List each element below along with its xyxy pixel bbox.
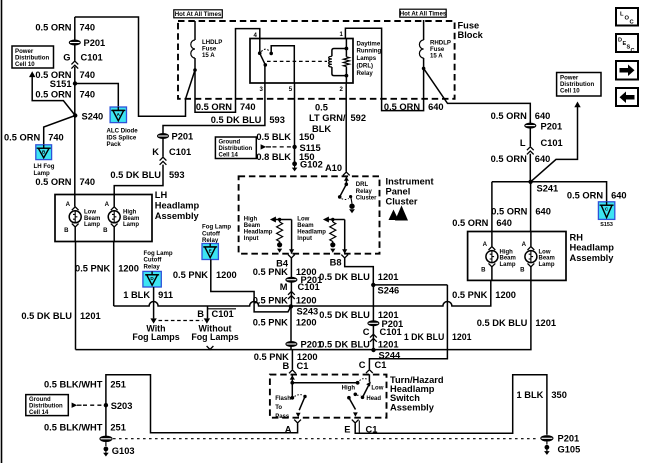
ground G105	[546, 441, 548, 444]
svg-text:Low: Low	[539, 249, 551, 255]
svg-text:C1: C1	[375, 360, 387, 370]
svg-text:Input: Input	[244, 236, 259, 242]
svg-text:0.5 DK BLU: 0.5 DK BLU	[21, 311, 72, 321]
flash-to-pass switch arm	[299, 397, 305, 411]
pin B8 chevron	[341, 255, 348, 258]
svg-text:15 A: 15 A	[430, 53, 443, 60]
connector G C101 inline chevrons	[71, 61, 78, 64]
connector P201 grommet (below S243)	[285, 341, 297, 347]
svg-text:L: L	[620, 12, 624, 18]
svg-text:0.5 ORN: 0.5 ORN	[196, 102, 232, 112]
connector B C101 tap (without fog lamps)	[207, 306, 209, 318]
svg-text:0.5 ORN: 0.5 ORN	[4, 133, 40, 143]
splice node S246	[371, 283, 375, 287]
svg-text:0.5 ORN: 0.5 ORN	[491, 111, 527, 121]
svg-text:640: 640	[611, 190, 627, 200]
wire 0.5 DK BLU 593 from DRL relay pin 3	[114, 65, 265, 207]
splice LH Fog Lamp (B)	[36, 145, 52, 160]
svg-text:Headlamp: Headlamp	[155, 201, 200, 211]
svg-text:1200: 1200	[216, 270, 237, 280]
fuse RHDLP 15A	[423, 20, 425, 40]
svg-text:1 BLK: 1 BLK	[123, 290, 150, 300]
svg-text:Instrument: Instrument	[386, 176, 434, 186]
svg-text:G103: G103	[112, 446, 135, 456]
svg-text:Lamp: Lamp	[123, 222, 139, 228]
wire S240 to LH fog lamp splice	[44, 116, 75, 149]
pin C wire into switch	[368, 374, 370, 382]
header box Hot At All Times (left)	[174, 10, 223, 18]
connector pin E chevron	[352, 420, 359, 423]
svg-text:C: C	[631, 48, 635, 54]
LH low beam B wire inside box	[74, 227, 76, 242]
svg-text:0.5 ORN: 0.5 ORN	[567, 190, 603, 200]
svg-text:B: B	[197, 309, 204, 319]
svg-text:Assembly: Assembly	[155, 211, 200, 221]
svg-text:350: 350	[551, 390, 567, 400]
splice node S203	[104, 403, 108, 407]
svg-text:Block: Block	[458, 30, 484, 40]
svg-text:G102: G102	[300, 160, 323, 170]
fuse block dashed outline	[178, 21, 455, 99]
LH low beam lamp pin B	[72, 224, 79, 227]
svg-text:L: L	[520, 138, 526, 148]
svg-text:5: 5	[289, 86, 293, 93]
wire S241 left branch to RH high beam	[492, 182, 531, 232]
connector P201 grommet right	[524, 123, 536, 129]
svg-text:0.5 ORN: 0.5 ORN	[491, 207, 527, 217]
svg-text:Pass: Pass	[275, 414, 290, 420]
svg-text:0.5 PNK: 0.5 PNK	[75, 263, 110, 273]
turn/hazard headlamp switch dashed box	[270, 375, 387, 418]
svg-text:0.5 PNK: 0.5 PNK	[173, 270, 208, 280]
svg-text:1200: 1200	[296, 295, 317, 305]
svg-text:High: High	[123, 210, 137, 216]
svg-text:0.5 ORN: 0.5 ORN	[35, 22, 71, 32]
svg-text:1201: 1201	[452, 332, 472, 342]
arrow from ground distribution to S203	[72, 403, 78, 408]
svg-text:M: M	[280, 282, 288, 292]
high/low/head switch contacts	[356, 381, 360, 385]
svg-text:S244: S244	[379, 350, 402, 360]
svg-text:S246: S246	[378, 285, 400, 295]
wire S246 right to headlamp switch feed	[373, 284, 447, 286]
svg-text:Head: Head	[366, 396, 381, 402]
LH low beam lamp	[69, 211, 81, 223]
wire RHDLP fuse to DRL relay pin 1 (0.5 ORN 640)	[345, 28, 423, 110]
svg-text:C101: C101	[541, 138, 563, 148]
svg-text:1 BLK: 1 BLK	[517, 390, 544, 400]
connector M C101 chevrons	[288, 291, 295, 294]
svg-text:DRL: DRL	[356, 182, 369, 188]
svg-text:S241: S241	[537, 183, 559, 193]
svg-text:Lamp: Lamp	[539, 262, 555, 268]
svg-text:0.5 PNK: 0.5 PNK	[253, 267, 288, 277]
svg-text:Low: Low	[84, 210, 96, 216]
wire 0.5 PNK 1200 LH high beam B down	[113, 242, 115, 307]
reference box Power Distribution Cell 10 (left)	[12, 46, 54, 68]
wire S241 to splice S153	[531, 182, 607, 206]
svg-text:C1: C1	[297, 361, 309, 371]
wire 0.5 PNK 1200 from E relay to S243	[211, 260, 291, 312]
svg-text:640: 640	[496, 218, 512, 228]
svg-text:E: E	[209, 248, 212, 253]
svg-text:740: 740	[80, 177, 96, 187]
instrument panel cluster dashed box	[239, 176, 380, 253]
svg-text:To: To	[275, 405, 282, 411]
svg-text:Beam: Beam	[500, 256, 516, 262]
svg-text:Hot At All Times: Hot At All Times	[175, 11, 222, 18]
svg-text:A10: A10	[325, 163, 342, 173]
svg-text:S203: S203	[111, 401, 133, 411]
svg-text:High: High	[500, 249, 514, 255]
wire LHDLP fuse output to DRL relay pin 4 (0.5 ORN 740)	[195, 29, 260, 113]
arrow Without Fog Lamps	[204, 318, 210, 323]
RH headlamp assembly box	[468, 232, 566, 281]
connector P201 grommet top-left	[69, 40, 81, 46]
splice node S243	[289, 304, 293, 308]
relay switch arm (pin4 to pin3)	[260, 53, 266, 65]
svg-text:C101: C101	[212, 309, 234, 319]
svg-text:C101: C101	[81, 53, 103, 63]
svg-text:0.5 ORN: 0.5 ORN	[452, 218, 488, 228]
svg-text:640: 640	[535, 111, 551, 121]
arrow With Fog Lamps	[150, 318, 156, 323]
svg-text:A: A	[105, 201, 110, 208]
svg-text:LT GRN/: LT GRN/	[309, 113, 346, 123]
wire low beam input to pin B8	[344, 220, 346, 254]
dashed alternative link	[159, 320, 203, 322]
svg-text:C101: C101	[380, 327, 402, 337]
svg-text:P201: P201	[84, 38, 106, 48]
svg-text:0.5 BLK/WHT: 0.5 BLK/WHT	[44, 380, 103, 390]
wire 1 DK BLU 1201 down to switch pin C jog	[369, 285, 447, 369]
splice node S240	[73, 113, 77, 117]
splice node S115	[292, 145, 296, 149]
connector P201 grommet (S246-S244)	[367, 320, 379, 326]
wire high beam input to pin B4	[291, 220, 293, 254]
svg-text:S240: S240	[82, 112, 104, 122]
svg-text:C101: C101	[169, 147, 191, 157]
svg-text:Beam: Beam	[244, 223, 260, 229]
svg-text:Flash: Flash	[275, 396, 291, 402]
svg-text:1201: 1201	[535, 318, 556, 328]
svg-text:Hot At All Times: Hot At All Times	[400, 11, 447, 18]
svg-text:Relay: Relay	[356, 189, 373, 195]
inline connector chevron (without fog mate)	[207, 346, 214, 349]
button arrow left	[616, 88, 638, 106]
svg-text:B: B	[520, 267, 525, 274]
RH low beam wire into box	[530, 232, 532, 247]
connector P201 grommet (G105 wire)	[540, 435, 553, 441]
RH low beam lamp	[525, 251, 537, 263]
RH low beam lamp pin B	[528, 263, 535, 266]
splice node S151	[73, 81, 77, 85]
svg-text:1201: 1201	[80, 311, 101, 321]
high beam headlamp input (arrow, resistor, indicator)	[270, 217, 276, 223]
svg-text:High: High	[244, 217, 258, 223]
wire 0.5 BLK 150 relay pin5 down	[294, 83, 296, 162]
svg-text:0.5 DK BLU: 0.5 DK BLU	[319, 310, 370, 320]
wire 0.5 LT GRN/BLK 592 relay pin2 to cluster A10	[345, 83, 347, 172]
wire 0.5 ORN 640 down right side	[529, 121, 531, 182]
connector P201 grommet on DK BLU wire	[157, 133, 169, 139]
svg-text:0.5 ORN: 0.5 ORN	[35, 90, 71, 100]
connector L C101 chevrons	[527, 147, 534, 150]
svg-text:1201: 1201	[378, 272, 399, 282]
svg-text:0.5 DK BLU: 0.5 DK BLU	[110, 170, 161, 180]
svg-text:G: G	[63, 53, 70, 63]
connector pin A10 chevron	[343, 172, 350, 175]
svg-text:C: C	[363, 327, 370, 337]
svg-text:P201: P201	[172, 132, 194, 142]
svg-text:0.5 PNK: 0.5 PNK	[452, 290, 487, 300]
svg-text:0.5 DK BLU: 0.5 DK BLU	[319, 340, 370, 350]
left page border	[1, 0, 3, 463]
svg-text:G105: G105	[558, 444, 581, 454]
svg-text:Beam: Beam	[84, 216, 100, 222]
svg-text:(DRL): (DRL)	[357, 63, 374, 70]
splice pack ALC Diode (A)	[110, 107, 126, 123]
wire main LH vertical ORN 740	[74, 17, 76, 207]
svg-text:Ground: Ground	[29, 397, 51, 403]
wire S241 to Power Distribution Cell 10 arrow	[531, 107, 578, 182]
svg-text:Fog Lamps: Fog Lamps	[191, 332, 238, 342]
pin B4 chevron	[288, 255, 295, 258]
flash-to-pass feed inside switch	[292, 375, 357, 383]
svg-text:High: High	[342, 386, 356, 392]
LH headlamp assembly box	[55, 195, 152, 242]
button LOC	[616, 8, 638, 26]
relay switch pin 4 to pivot	[259, 39, 261, 54]
svg-text:Distribution: Distribution	[219, 146, 253, 152]
splice node S244	[371, 348, 375, 352]
connector P201 grommet (B4 wire)	[285, 277, 297, 283]
button arrow right	[616, 61, 638, 80]
relay junction dots	[345, 47, 349, 51]
svg-text:0.5 ORN: 0.5 ORN	[384, 102, 420, 112]
svg-text:593: 593	[169, 170, 185, 180]
flash-to-pass dotted linkage	[295, 395, 304, 397]
svg-text:1201: 1201	[378, 340, 399, 350]
svg-text:Low: Low	[297, 217, 309, 223]
svg-text:Ground: Ground	[219, 140, 241, 146]
arrow from ground distribution to S115 with dashed link	[261, 144, 267, 149]
wire S241 down to RH low beam	[530, 182, 532, 232]
RH high beam lamp pin B	[489, 263, 496, 266]
svg-text:Running: Running	[357, 48, 382, 55]
svg-text:Lamp: Lamp	[34, 170, 51, 177]
connector grommet on G103 wire	[99, 436, 112, 442]
svg-text:0.5 PNK: 0.5 PNK	[253, 317, 288, 327]
svg-text:592: 592	[351, 113, 367, 123]
svg-text:P201: P201	[541, 121, 563, 131]
svg-text:Assembly: Assembly	[390, 402, 435, 412]
svg-text:1200: 1200	[296, 317, 317, 327]
svg-text:Pack: Pack	[107, 141, 122, 148]
head/low switch arm	[363, 382, 371, 397]
svg-text:Relay: Relay	[357, 70, 374, 77]
wire 0.5 PNK 1200 from B4	[290, 258, 292, 306]
svg-text:Fog Lamps: Fog Lamps	[132, 332, 179, 342]
svg-text:740: 740	[48, 133, 64, 143]
svg-text:0.5 BLK: 0.5 BLK	[256, 132, 291, 142]
svg-text:15 A: 15 A	[202, 52, 215, 59]
wire RHDLP fuse diagonal tap to RH side (0.5 ORN 640)	[424, 68, 531, 123]
svg-text:B: B	[481, 267, 486, 274]
connector K C101 chevrons	[160, 157, 167, 160]
cluster logo triangles	[389, 210, 399, 221]
svg-text:E: E	[344, 425, 350, 435]
svg-text:Cell 10: Cell 10	[15, 61, 35, 68]
svg-text:Assembly: Assembly	[570, 253, 615, 263]
svg-text:0.5 BLK/WHT: 0.5 BLK/WHT	[44, 423, 103, 433]
svg-text:A: A	[483, 241, 488, 248]
svg-text:0.5 DK BLU: 0.5 DK BLU	[319, 272, 370, 282]
svg-text:0.5: 0.5	[315, 103, 328, 113]
svg-text:Beam: Beam	[297, 223, 313, 229]
wire 1 BLK 350 pin E to G105	[355, 375, 547, 435]
LH high beam lamp pin B	[111, 224, 118, 227]
header box Hot At All Times (right)	[400, 9, 446, 17]
svg-text:251: 251	[110, 423, 126, 433]
svg-text:740: 740	[80, 90, 96, 100]
wire 0.5 PNK 1200 bus to switch pin B	[291, 350, 293, 370]
svg-text:0.5 DK BLU: 0.5 DK BLU	[477, 318, 528, 328]
RH high beam wire into box	[491, 232, 493, 247]
svg-text:Cell 14: Cell 14	[219, 153, 239, 159]
svg-text:0.5 ORN: 0.5 ORN	[35, 177, 71, 187]
svg-text:S151: S151	[50, 79, 72, 89]
svg-text:RH: RH	[570, 232, 584, 242]
svg-text:740: 740	[80, 70, 96, 80]
wire 1 BLK 911 from D relay	[153, 287, 155, 318]
svg-text:740: 740	[240, 102, 256, 112]
svg-text:A: A	[66, 201, 71, 208]
wire S243 down through P201 to DK BLU bus	[290, 306, 292, 349]
svg-text:0.5 DK BLU: 0.5 DK BLU	[211, 115, 262, 125]
svg-text:640: 640	[428, 102, 444, 112]
ground G102	[292, 161, 297, 166]
DK BLU bus to S244 and RH low beam	[76, 280, 531, 349]
LH high beam B wire inside box	[113, 227, 115, 242]
svg-text:Fuse: Fuse	[458, 20, 480, 30]
svg-text:Headlamp: Headlamp	[297, 230, 326, 236]
svg-text:740: 740	[80, 22, 96, 32]
svg-text:BLK: BLK	[312, 124, 331, 134]
page split dotted line	[113, 438, 539, 440]
svg-text:Relay: Relay	[144, 263, 161, 270]
svg-text:S243: S243	[297, 307, 319, 317]
DRL relay cluster switch	[345, 176, 347, 184]
svg-text:Beam: Beam	[123, 216, 139, 222]
wire 0.5 ORN 740 from LHDLP fuse to P201 (top-left loop)	[75, 17, 195, 116]
wire 0.5 DK BLU 1201 from B8 to S246	[345, 258, 374, 285]
relay coil+resistor main vertical pin1-pin2	[345, 39, 347, 84]
ground G103	[105, 442, 107, 446]
svg-text:Low: Low	[371, 386, 383, 392]
splice node S241	[528, 180, 532, 184]
svg-text:0.8 BLK: 0.8 BLK	[256, 152, 291, 162]
svg-text:251: 251	[110, 380, 126, 390]
arrow to Power Distribution Cell 10	[29, 71, 35, 77]
LH high beam lamp	[108, 211, 120, 223]
svg-text:911: 911	[158, 290, 173, 300]
relay coil linkage dashed	[267, 60, 327, 62]
svg-text:Headlamp: Headlamp	[244, 230, 273, 236]
svg-text:D: D	[618, 38, 622, 44]
head output arm to pin E	[347, 396, 351, 400]
RH high beam lamp	[486, 251, 498, 263]
fuse LHDLP 15A	[194, 21, 196, 40]
low beam headlamp input (arrow, resistor, indicator)	[323, 217, 329, 223]
svg-text:Cell 14: Cell 14	[29, 410, 49, 416]
connector C C101 chevrons	[370, 334, 377, 337]
svg-text:640: 640	[535, 154, 551, 164]
svg-text:Distribution: Distribution	[29, 404, 63, 410]
reference box Ground Distribution Cell 14 (upper)	[215, 137, 256, 159]
svg-text:C101: C101	[298, 282, 320, 292]
svg-text:1 DK BLU: 1 DK BLU	[404, 332, 445, 342]
reference box Ground Distribution Cell 14 (lower)	[26, 395, 69, 416]
wire S151 to ALC diode splice	[75, 84, 118, 111]
relay coil parallel loop	[332, 49, 347, 76]
wire 0.5 DK BLU 1201 LH low beam B down	[75, 242, 77, 350]
svg-text:1200: 1200	[495, 290, 516, 300]
button DESC	[616, 34, 638, 52]
svg-text:Lamp: Lamp	[500, 262, 516, 268]
wire S246 down through P201/C101 to S244	[372, 285, 374, 350]
svg-text:Lamps: Lamps	[357, 55, 377, 62]
relay contact to pin 5	[271, 46, 294, 83]
svg-text:Beam: Beam	[539, 256, 555, 262]
svg-text:K: K	[152, 147, 159, 157]
reference box Power Distribution Cell 10 (right)	[557, 73, 601, 97]
svg-text:B: B	[64, 227, 69, 234]
wire 0.5 BLK/WHT 251 pin A to S203/G103	[106, 375, 298, 437]
svg-text:B: B	[103, 227, 108, 234]
svg-text:593: 593	[269, 115, 285, 125]
svg-text:1200: 1200	[118, 263, 139, 273]
svg-text:0.5 ORN: 0.5 ORN	[491, 154, 527, 164]
svg-text:P201: P201	[558, 433, 580, 443]
svg-text:S153: S153	[600, 222, 613, 228]
flash-to-pass arrow up	[290, 375, 295, 379]
relay resistor	[343, 57, 349, 67]
relay switch dotted throw arc	[261, 49, 269, 51]
svg-text:B: B	[282, 361, 289, 371]
svg-text:Panel: Panel	[386, 186, 411, 196]
svg-text:Cluster: Cluster	[386, 196, 418, 206]
svg-text:A: A	[522, 241, 527, 248]
svg-text:640: 640	[535, 207, 551, 217]
svg-text:Cluster: Cluster	[356, 195, 377, 201]
svg-text:Input: Input	[297, 236, 312, 242]
svg-text:Cell 10: Cell 10	[560, 88, 580, 95]
svg-text:LH: LH	[155, 190, 168, 200]
relay box Daytime Running Lamps (DRL) Relay	[250, 39, 353, 84]
svg-text:B8: B8	[330, 257, 342, 267]
svg-text:Lamp: Lamp	[84, 222, 100, 228]
connector pin A chevron	[294, 420, 301, 423]
svg-text:Daytime: Daytime	[357, 40, 381, 47]
svg-text:C: C	[359, 360, 366, 370]
PNK bus to S243 and RH high beam with crossover hops	[114, 280, 491, 306]
splice S153 (C)	[598, 202, 614, 220]
svg-text:Headlamp: Headlamp	[570, 243, 615, 253]
